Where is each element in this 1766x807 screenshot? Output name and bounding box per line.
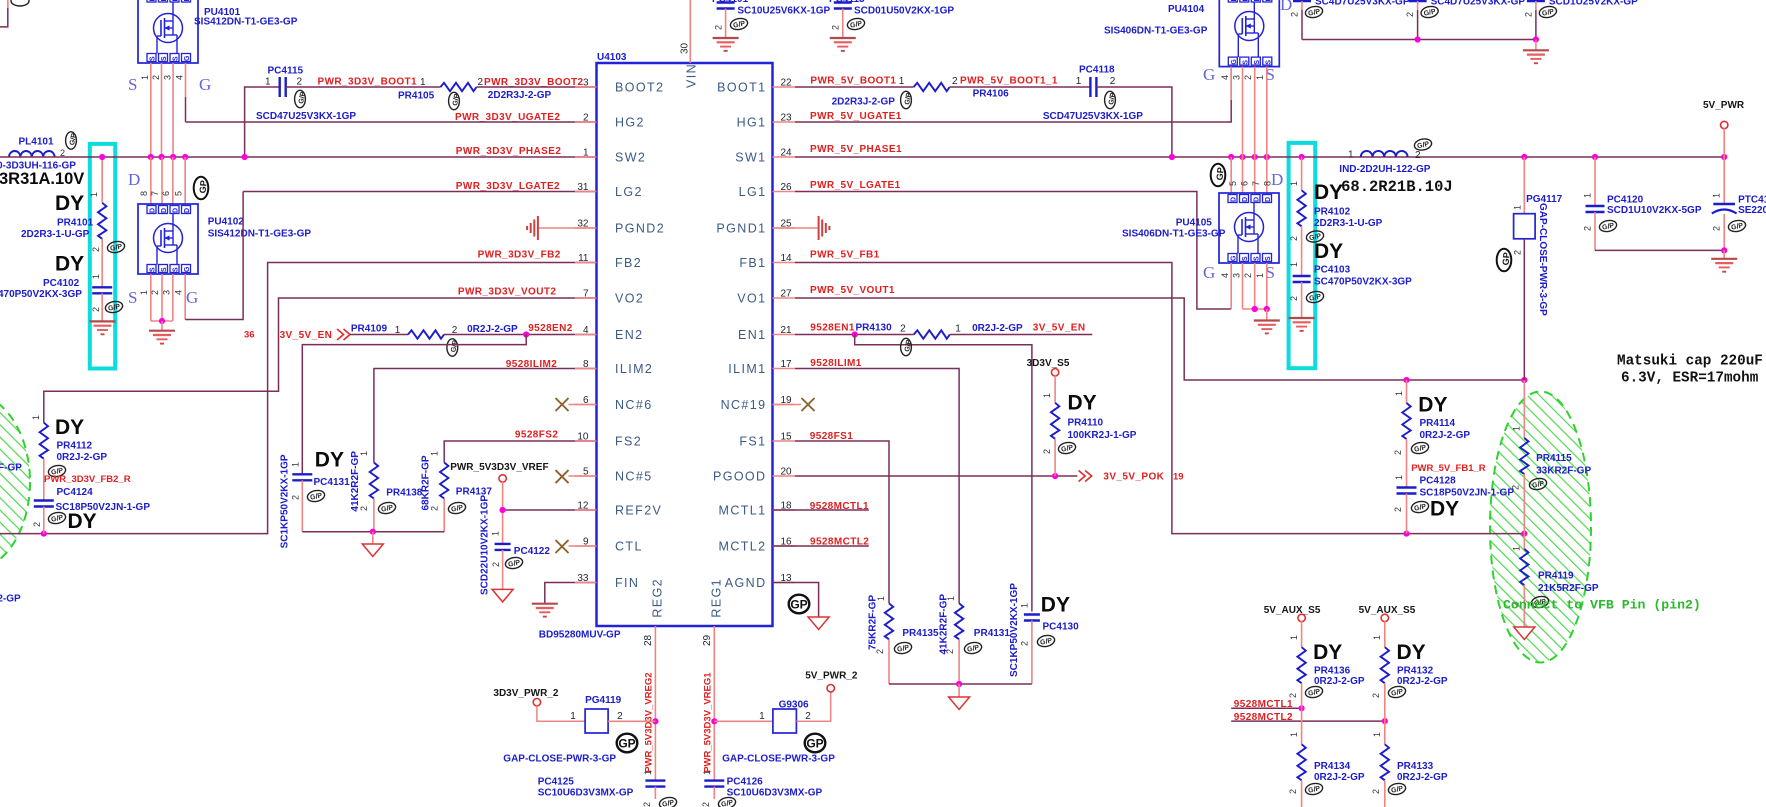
svg-text:29: 29 [702, 634, 713, 646]
svg-text:SC1KP50V2KX-1GP: SC1KP50V2KX-1GP [1009, 583, 1020, 677]
net label PWR_5V3D3V_VREF [450, 462, 548, 473]
svg-text:ILIM1: ILIM1 [728, 362, 766, 376]
gap pad PG4119 GAP-CLOSE-PWR-3-GP [570, 695, 623, 733]
capacitor PC4120 SCD1U10V2KX-5GP [1583, 193, 1702, 250]
G label PU4104 [1203, 65, 1215, 84]
op-amp U4103 BD95280MUV-GP box [597, 52, 773, 626]
svg-text:PGND2: PGND2 [615, 222, 665, 236]
svg-text:D: D [1271, 170, 1283, 189]
net PWR_3D3V_LGATE2 wire [243, 191, 596, 193]
green highlight ellipse right [1490, 392, 1591, 663]
wire 9528EN2 to pin 4 [444, 334, 597, 336]
net 9528MCTL1 stub [773, 509, 869, 511]
net PWR_5V_LGATE1 wire [795, 192, 1231, 310]
svg-text:9528FS2: 9528FS2 [515, 430, 558, 441]
resistor PR4105 2D2R3J-2-GP [398, 77, 551, 110]
value label 68.2R21B.10J [1341, 178, 1453, 196]
resistor PR4112 0R2J-2-GP [31, 415, 107, 501]
svg-text:3D3V_S5: 3D3V_S5 [1027, 358, 1070, 369]
svg-text:2: 2 [32, 522, 42, 527]
net label 5V_AUX_S5 first [1264, 605, 1321, 616]
svg-text:1: 1 [955, 324, 961, 335]
svg-text:DY: DY [55, 192, 84, 215]
wire PTC cap column [1723, 157, 1725, 203]
svg-text:1: 1 [395, 325, 401, 336]
svg-text:DY: DY [1041, 594, 1070, 617]
svg-text:HG2: HG2 [615, 116, 645, 130]
capacitor PC4125 SC10U6D3V3MX-GP [538, 770, 678, 807]
S label PU4102 [128, 288, 137, 307]
svg-text:SC1KP50V2KX-1GP: SC1KP50V2KX-1GP [280, 454, 291, 548]
svg-text:D: D [1254, 0, 1261, 2]
ground rotated PGND1 [819, 216, 830, 240]
svg-text:D: D [161, 0, 168, 2]
page ref 36 [244, 330, 255, 341]
svg-text:PTC41: PTC41 [1738, 195, 1766, 206]
svg-text:75KR2F-GP: 75KR2F-GP [868, 595, 879, 650]
svg-text:GAP-CLOSE-PWR-3-GP: GAP-CLOSE-PWR-3-GP [722, 754, 835, 765]
svg-text:1: 1 [1020, 603, 1030, 608]
net label 9528FS1 [810, 431, 853, 442]
net label 9528EN2 [528, 323, 573, 334]
junction dot PGOOD PR4110 [1052, 473, 1058, 479]
svg-text:PGND1: PGND1 [716, 222, 766, 236]
ground top-right caps [1523, 50, 1549, 63]
ground below PC4103 [1289, 318, 1315, 331]
net label PWR_3D3V_FB2 [478, 250, 561, 261]
svg-text:2: 2 [1243, 273, 1253, 278]
net PWR_3D3V_UGATE2 wire [186, 121, 597, 123]
svg-text:GP: GP [198, 180, 209, 194]
svg-text:S: S [128, 288, 137, 307]
svg-text:17: 17 [781, 359, 793, 370]
svg-text:2D2R3-1-U-GP: 2D2R3-1-U-GP [21, 229, 90, 240]
svg-text:D: D [1280, 0, 1292, 14]
svg-text:26: 26 [781, 182, 793, 193]
wire REG1 to PC4126 [713, 721, 715, 780]
svg-text:PC4120: PC4120 [1607, 195, 1644, 206]
svg-text:CTL: CTL [615, 540, 643, 554]
svg-text:2: 2 [642, 802, 652, 807]
G label PU4105 [1203, 263, 1215, 282]
svg-text:D: D [1242, 0, 1249, 2]
svg-text:SCD1U25V2KX-GP: SCD1U25V2KX-GP [1549, 0, 1638, 8]
svg-text:3R31A.10V: 3R31A.10V [0, 170, 84, 188]
svg-text:12: 12 [577, 501, 589, 512]
net 9528FS1 wire [795, 441, 889, 603]
svg-text:SCD01U50V2KX-1GP: SCD01U50V2KX-1GP [854, 6, 954, 17]
svg-text:PC4103: PC4103 [1314, 265, 1351, 276]
wire EN1 branch to PC4130 [855, 335, 1032, 612]
svg-text:22: 22 [781, 78, 793, 89]
svg-text:2: 2 [1290, 12, 1300, 17]
value label IND-3D3UH-116-GP [0, 161, 76, 172]
svg-text:9528ILIM1: 9528ILIM1 [810, 358, 861, 369]
wire PG4117 to VOUT1 sense [1523, 239, 1525, 380]
svg-text:GP: GP [806, 736, 823, 750]
svg-text:470P50V2KX-3GP: 470P50V2KX-3GP [0, 289, 82, 300]
junction dots on phase1 [1169, 154, 1727, 160]
svg-text:PR4134: PR4134 [1314, 761, 1351, 772]
cyan highlight box left [90, 144, 115, 369]
svg-text:3: 3 [583, 78, 589, 89]
svg-text:33KR2F-GP: 33KR2F-GP [1536, 466, 1591, 477]
net PWR_3D3V_VOUT2 wire [44, 298, 597, 423]
svg-text:3: 3 [1232, 75, 1242, 80]
net PWR_5V_PHASE1 wire [795, 156, 1724, 158]
svg-text:36: 36 [244, 330, 255, 341]
wire BOOT1_1 to cap PC4118 [950, 86, 1091, 88]
svg-text:1: 1 [759, 711, 765, 722]
wire 3V_5V_EN to resistor [350, 334, 408, 336]
svg-text:SCD47U25V3KX-1GP: SCD47U25V3KX-1GP [1043, 111, 1143, 122]
terminal 5V_AUX_S5 first [1298, 614, 1305, 621]
svg-text:Connect to VFB Pin (pin2): Connect to VFB Pin (pin2) [1503, 598, 1701, 613]
wire 5V_PWR cap ground bus [1595, 247, 1727, 259]
junction dots VOUT1 sense [1403, 377, 1527, 383]
svg-text:2: 2 [952, 76, 958, 87]
net label 5V_PWR_2 [805, 671, 858, 682]
svg-text:D: D [150, 208, 157, 213]
capacitor PC4131 SC1KP50V2KX-1GP [280, 454, 351, 548]
junction dots on phase2 [99, 154, 248, 160]
terminal 5V_PWR [1721, 121, 1728, 128]
svg-text:PC4122: PC4122 [514, 546, 551, 557]
net label PWR_3D3V_FB2_R [44, 474, 131, 485]
svg-text:G: G [184, 55, 191, 61]
AGND triangle below PC4122 [492, 589, 513, 602]
svg-text:G: G [199, 75, 211, 94]
svg-text:S: S [1254, 256, 1261, 261]
green highlight ellipse bottom-left [0, 394, 30, 570]
svg-text:9528FS1: 9528FS1 [810, 431, 853, 442]
D pin stubs PU4105 [1231, 157, 1267, 193]
svg-text:6: 6 [583, 395, 589, 406]
capacitor PC4115 SCD47U25V3KX-1GP [256, 66, 356, 123]
wire PWR_3D3V_BOOT1 [286, 86, 441, 88]
svg-text:PWR_5V_BOOT1_1: PWR_5V_BOOT1_1 [960, 76, 1058, 87]
ground below PC4113 [830, 38, 856, 51]
svg-text:2: 2 [1289, 236, 1299, 241]
svg-text:1: 1 [139, 290, 149, 295]
svg-text:2: 2 [1243, 75, 1253, 80]
capacitor PC4113 SCD01U50V2KX-1GP [829, 0, 954, 38]
svg-text:9528EN2: 9528EN2 [528, 323, 573, 334]
svg-text:PWR_3D3V_LGATE2: PWR_3D3V_LGATE2 [456, 181, 560, 192]
net label PWR_5V_FB1 [810, 250, 880, 261]
svg-text:DY: DY [55, 416, 84, 439]
DY marker PR4132 [1397, 641, 1426, 664]
svg-text:PR4138: PR4138 [386, 488, 423, 499]
DY marker PC4128 [1430, 498, 1459, 521]
net label 9528MCTL1 right [1234, 699, 1293, 710]
net label 3D3V_S5 [1027, 358, 1070, 369]
svg-text:PR4132: PR4132 [1397, 666, 1434, 677]
svg-text:VO2: VO2 [615, 292, 644, 306]
svg-text:2: 2 [945, 649, 955, 654]
svg-text:1: 1 [1255, 273, 1265, 278]
svg-text:2: 2 [1405, 12, 1415, 17]
svg-text:9528MCTL1: 9528MCTL1 [1234, 699, 1293, 710]
pin 28 REG2 [643, 626, 655, 721]
svg-text:1: 1 [91, 274, 101, 279]
svg-text:PC4130: PC4130 [1043, 622, 1080, 633]
svg-text:4: 4 [583, 325, 589, 336]
svg-text:PC4102: PC4102 [43, 278, 80, 289]
svg-text:2: 2 [430, 506, 440, 511]
svg-text:1: 1 [702, 770, 712, 775]
svg-text:IND-2D2UH-122-GP: IND-2D2UH-122-GP [1339, 164, 1430, 175]
capacitor PC4128 SC18P50V2JN-1-GP [1393, 475, 1514, 534]
wire PU4104 gate stub [1230, 67, 1232, 100]
svg-text:D: D [150, 0, 157, 2]
svg-text:0R2J-2-GP: 0R2J-2-GP [467, 324, 518, 335]
cyan highlight box right [1289, 143, 1316, 368]
svg-text:2: 2 [1288, 693, 1298, 698]
svg-text:0R2J-2-GP: 0R2J-2-GP [1314, 772, 1365, 783]
DY marker PR4114 [1418, 394, 1447, 417]
net label PWR_3D3V_PHASE2 [456, 146, 562, 157]
svg-text:D: D [1242, 197, 1249, 202]
red net label PWR_5V3D3V_VREG1 [703, 672, 714, 773]
svg-text:BOOT1: BOOT1 [717, 81, 766, 95]
DY marker PR4102 [1314, 181, 1343, 204]
capacitor PC4122 SCD22U10V2KX-1GP [480, 495, 551, 595]
AGND triangle pin 13 [808, 617, 829, 630]
wire top-right cap ground bus [1302, 36, 1539, 50]
net label 3V_5V_POK [1103, 472, 1164, 483]
svg-text:PR4114: PR4114 [1420, 418, 1456, 429]
net label 3V_5V_EN left [280, 330, 333, 341]
svg-text:ILIM2: ILIM2 [615, 362, 653, 376]
svg-text:1: 1 [570, 711, 576, 722]
transistor PU4101 SIS412DN-T1-GE3-GP [138, 0, 298, 63]
net 9528ILIM1 wire [795, 369, 959, 604]
net 9528MCTL1 wire right [1231, 705, 1305, 711]
svg-text:PR4133: PR4133 [1397, 761, 1434, 772]
svg-text:PWR_3D3V_PHASE2: PWR_3D3V_PHASE2 [456, 146, 562, 157]
label REG1 [710, 578, 724, 618]
svg-text:D: D [184, 208, 191, 213]
net label PWR_5V_FB1_R [1411, 463, 1486, 474]
svg-text:DY: DY [1313, 641, 1342, 664]
wire PU4102 sources to ground [151, 274, 173, 331]
wire PU4104 sources to phase1 [1243, 67, 1267, 157]
G label PU4101 [199, 75, 211, 94]
svg-text:2: 2 [1393, 507, 1403, 512]
DY marker PC4131 [315, 449, 344, 472]
svg-text:D: D [1231, 197, 1238, 202]
svg-text:2: 2 [1712, 226, 1722, 231]
svg-text:11: 11 [578, 253, 589, 264]
svg-text:DY: DY [55, 253, 84, 276]
svg-text:LG2: LG2 [615, 185, 643, 199]
svg-text:U4103: U4103 [597, 52, 627, 63]
svg-text:2: 2 [1110, 76, 1116, 87]
svg-text:1: 1 [1512, 546, 1522, 551]
svg-text:S: S [150, 267, 157, 272]
svg-text:PR4136: PR4136 [1314, 666, 1351, 677]
svg-text:1: 1 [1394, 475, 1404, 480]
svg-text:1: 1 [1372, 635, 1382, 640]
net label 9528MCTL2 right [1234, 712, 1293, 723]
net label PWR_3D3V_BOOT2 [484, 77, 584, 88]
svg-text:30: 30 [680, 42, 691, 54]
svg-text:2: 2 [583, 113, 589, 124]
svg-text:D: D [161, 208, 168, 213]
svg-text:3V_5V_POK: 3V_5V_POK [1103, 472, 1164, 483]
IC left pins with numbers [575, 78, 665, 591]
svg-text:1: 1 [583, 148, 589, 159]
resistor PR4130 0R2J-2-GP [856, 323, 1024, 356]
svg-text:PR4112: PR4112 [57, 441, 93, 452]
wire G9306 to 5V_PWR_2 [796, 692, 830, 722]
svg-text:REG2: REG2 [651, 578, 665, 618]
net 9528ILIM2 wire [374, 369, 597, 463]
svg-text:DY: DY [1314, 240, 1343, 263]
svg-text:HG1: HG1 [737, 116, 767, 130]
svg-text:DY: DY [1418, 394, 1447, 417]
svg-text:2: 2 [1583, 226, 1593, 231]
svg-text:DY: DY [68, 510, 97, 533]
svg-text:1: 1 [31, 415, 41, 420]
resistor PR4115 33KR2F-GP [1511, 380, 1592, 534]
svg-text:2: 2 [291, 495, 301, 500]
svg-text:NC#5: NC#5 [615, 470, 653, 484]
svg-text:GP: GP [1215, 167, 1226, 181]
svg-text:2: 2 [1511, 485, 1521, 490]
DY marker PR4136 [1313, 641, 1342, 664]
svg-text:PWR_3D3V_FB2_R: PWR_3D3V_FB2_R [44, 474, 131, 485]
svg-text:PU4102: PU4102 [208, 217, 245, 228]
junction dots FB1 bottom [1403, 531, 1527, 537]
wire VREF to REF2V pin [500, 482, 597, 544]
ground rotated PGND2 [527, 216, 538, 240]
svg-text:6: 6 [1240, 181, 1250, 186]
svg-text:23: 23 [781, 113, 793, 124]
net PWR_3D3V_FB2 wire [0, 263, 597, 534]
junction dot EN2 [523, 331, 529, 337]
svg-text:S: S [161, 56, 168, 61]
svg-text:D: D [128, 170, 140, 189]
svg-text:2: 2 [1020, 641, 1030, 646]
svg-text:1: 1 [89, 192, 99, 197]
svg-text:5: 5 [583, 467, 589, 478]
svg-text:D: D [1265, 0, 1272, 2]
wire analog ground bus left [302, 529, 444, 544]
svg-text:FS1: FS1 [739, 435, 766, 449]
svg-text:EN2: EN2 [615, 328, 644, 342]
svg-text:SIS412DN-T1-GE3-GP: SIS412DN-T1-GE3-GP [208, 229, 312, 240]
resistor PR4134 0R2J-2-GP [1288, 708, 1365, 807]
svg-text:3: 3 [1232, 273, 1242, 278]
annotation Matsuki cap [1617, 354, 1763, 387]
svg-text:SCD47U25V3KX-1GP: SCD47U25V3KX-1GP [256, 111, 356, 122]
svg-text:100KR2J-1-GP: 100KR2J-1-GP [1068, 430, 1137, 441]
svg-text:68KR2F-GP: 68KR2F-GP [421, 455, 432, 510]
svg-text:PWR_5V_LGATE1: PWR_5V_LGATE1 [810, 180, 901, 191]
svg-text:2: 2 [1393, 450, 1403, 455]
net label PWR_3D3V_VOUT2 [458, 287, 556, 298]
resistor PR4119 21K5R2F-GP [1511, 534, 1599, 627]
label GAP-CLOSE-PWR-3-GP right [722, 754, 835, 765]
net 9528FS2 wire [444, 441, 596, 463]
svg-text:REG1: REG1 [710, 578, 724, 618]
red net label PWR_5V3D3V_VREG2 [644, 672, 655, 772]
svg-text:0R2J-2-GP: 0R2J-2-GP [1397, 772, 1448, 783]
svg-text:1: 1 [1712, 193, 1722, 198]
svg-text:G/P: G/P [721, 799, 735, 807]
net 9528MCTL2 stub [773, 545, 869, 547]
capacitor PC4126 SC10U6D3V3MX-GP [701, 770, 823, 807]
svg-text:DY: DY [315, 449, 344, 472]
resistor PR4136 0R2J-2-GP [1288, 621, 1365, 708]
svg-text:1: 1 [1394, 391, 1404, 396]
AGND triangle right group [949, 697, 970, 710]
svg-text:SW1: SW1 [735, 151, 766, 165]
net label PWR_5V_UGATE1 [810, 111, 902, 122]
svg-text:D: D [173, 0, 180, 2]
svg-text:PR4131: PR4131 [974, 628, 1011, 639]
page ref 19 [1173, 472, 1184, 483]
svg-text:S: S [1254, 60, 1261, 65]
svg-text:PWR_5V_UGATE1: PWR_5V_UGATE1 [810, 111, 902, 122]
net PWR_5V_VOUT1 wire [795, 298, 1524, 380]
junction dot EN1 [852, 331, 858, 337]
wire phase1 to PG4117 [1523, 157, 1525, 214]
ground below PU4105 [1254, 321, 1280, 334]
svg-text:2: 2 [617, 711, 623, 722]
wire 9528EN1 [795, 334, 914, 336]
capacitor top-right 2 SC4D7U25V3KX-GP [1405, 0, 1525, 40]
svg-text:SC4D7U25V3KX-GP: SC4D7U25V3KX-GP [1315, 0, 1410, 8]
svg-text:PWR_5V_VOUT1: PWR_5V_VOUT1 [810, 285, 895, 296]
resistor PR4137 68KR2F-GP [421, 451, 493, 532]
svg-text:3D3V_PWR_2: 3D3V_PWR_2 [493, 688, 558, 699]
svg-text:5V_PWR_2: 5V_PWR_2 [805, 671, 858, 682]
svg-text:GP: GP [790, 597, 807, 611]
svg-text:9528ILIM2: 9528ILIM2 [506, 359, 557, 370]
svg-text:1: 1 [1289, 635, 1299, 640]
svg-text:5V_AUX_S5: 5V_AUX_S5 [1264, 605, 1321, 616]
svg-text:15: 15 [781, 432, 793, 443]
net PWR_5V_UGATE1 wire [795, 67, 1231, 122]
wire PWR_5V_BOOT1 [795, 86, 914, 88]
svg-text:2: 2 [359, 506, 369, 511]
svg-text:0R2J-2-GP: 0R2J-2-GP [57, 452, 108, 463]
svg-text:S: S [128, 75, 137, 94]
svg-text:PC4125: PC4125 [538, 777, 575, 788]
DY marker PR4112 [55, 416, 84, 439]
svg-text:9528MCTL2: 9528MCTL2 [810, 537, 869, 548]
svg-text:2: 2 [1371, 693, 1381, 698]
svg-text:0R2J-2-GP: 0R2J-2-GP [1314, 676, 1365, 687]
resistor PR4135 75KR2F-GP [868, 595, 939, 684]
wire PGND2 pin 32 [538, 227, 597, 229]
svg-text:PR4119: PR4119 [1538, 571, 1574, 582]
wire PU4101 source pins to phase node [151, 63, 173, 157]
resistor PR4132 0R2J-2-GP [1371, 621, 1448, 721]
svg-text:PC4118: PC4118 [1079, 65, 1115, 76]
svg-text:VIN: VIN [685, 63, 699, 88]
svg-text:S: S [150, 56, 157, 61]
svg-text:PWR_3D3V_FB2: PWR_3D3V_FB2 [478, 250, 561, 261]
svg-text:PWR_5V_FB1: PWR_5V_FB1 [810, 250, 880, 261]
svg-text:S: S [161, 267, 168, 272]
svg-text:19: 19 [1173, 472, 1184, 483]
svg-text:3V_5V_EN: 3V_5V_EN [280, 330, 333, 341]
DY marker PC4130 [1041, 594, 1070, 617]
